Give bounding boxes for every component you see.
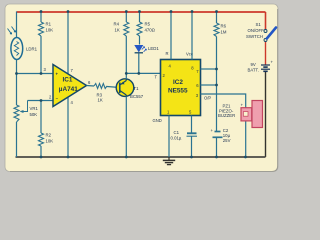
wire: R3 to T1 base: [107, 87, 120, 88]
svg-text:O/P: O/P: [204, 95, 211, 100]
wire: bottom ground rail (dark): [16, 156, 266, 158]
resistor R5: [137, 12, 156, 45]
wire: IC2 pin 3 output to buzzer: [201, 94, 246, 108]
svg-text:50K: 50K: [30, 112, 38, 117]
svg-text:470Ω: 470Ω: [145, 28, 156, 33]
potentiometer VR1: [14, 101, 38, 123]
svg-text:ON/OFF: ON/OFF: [248, 28, 265, 33]
svg-text:T: T: [155, 75, 158, 80]
LED LED1: [135, 45, 160, 53]
junction dots top rail: [40, 10, 218, 13]
svg-text:BUZZER: BUZZER: [218, 113, 235, 118]
wire: IC2 pin 8 to rail: [191, 12, 193, 60]
wire: IC2 pin 1 to ground: [168, 116, 170, 158]
wire: op-amp pin 7 to rail: [67, 12, 69, 75]
svg-text:C1: C1: [174, 130, 180, 135]
cream schematic panel: [5, 4, 278, 172]
capacitor C2 (electrolytic): [211, 128, 231, 143]
svg-text:GND: GND: [153, 118, 162, 123]
resistor R2: [39, 101, 54, 158]
resistor R4: [114, 12, 129, 74]
wire: IC2 pin 7 to R6 line: [201, 68, 217, 70]
svg-text:10K: 10K: [46, 28, 54, 33]
svg-text:R: R: [166, 51, 169, 56]
svg-text:R6: R6: [221, 24, 227, 29]
capacitor C1: [171, 130, 198, 141]
LDR LDR1: [8, 27, 38, 60]
ground symbol: [163, 157, 175, 165]
svg-text:25V: 25V: [223, 138, 231, 143]
wire: IC2 pin 6 to R6 line: [201, 84, 217, 86]
wire: right red vertical (rail to switch): [265, 12, 267, 30]
svg-text:IC2: IC2: [173, 79, 183, 86]
svg-text:VR1: VR1: [30, 106, 39, 111]
resistor R3: [94, 84, 107, 103]
resistor R6: [214, 12, 227, 132]
switch S1: [246, 22, 276, 42]
wire: battery negative down to ground rail (black): [265, 72, 267, 157]
wire: T1 emitter up to node / collector down to rail: [125, 73, 127, 157]
svg-text:1K: 1K: [98, 98, 103, 103]
wire: op-amp pin 2 to VR1 wiper / R2: [28, 100, 54, 102]
wire: top +V rail (red): [17, 11, 266, 13]
svg-text:µA741: µA741: [59, 86, 78, 93]
svg-text:LED1: LED1: [148, 46, 159, 51]
panel shadow edge: [10, 9, 278, 171]
svg-text:T1: T1: [134, 86, 140, 91]
svg-text:R5: R5: [145, 22, 151, 27]
wire: C1 to ground rail: [191, 137, 193, 158]
svg-text:SWITCH: SWITCH: [246, 34, 263, 39]
wire: left vertical branch: [16, 12, 18, 158]
svg-text:BC557: BC557: [130, 94, 144, 99]
wire: op-amp output to R3: [87, 85, 95, 88]
wire: node to op-amp pin 3: [17, 73, 54, 75]
wire: op-amp pin 4 to ground rail: [67, 97, 69, 158]
transistor T1 BC557: [116, 79, 144, 99]
wire: LED1 down to trigger node: [138, 54, 140, 74]
wire: IC2 pin 5 down to C1: [191, 116, 193, 133]
resistor R1: [39, 12, 54, 74]
wire: trigger row to IC2 pin 2: [126, 72, 160, 74]
svg-text:1K: 1K: [115, 28, 120, 33]
svg-text:IC1: IC1: [63, 77, 73, 84]
svg-text:S1: S1: [256, 22, 262, 27]
IC2 NE555: [161, 60, 201, 116]
svg-text:10K: 10K: [46, 139, 54, 144]
svg-text:BATT.: BATT.: [248, 68, 259, 73]
svg-text:1M: 1M: [221, 30, 227, 35]
piezo buzzer PZ1: [218, 101, 263, 158]
wire: C2 to ground rail: [216, 138, 218, 157]
page margin background: [0, 0, 283, 178]
op-amp IC1 uA741: [44, 65, 92, 107]
wire: switch to battery (red): [265, 41, 267, 65]
svg-text:R2: R2: [46, 133, 52, 138]
svg-text:NE555: NE555: [168, 88, 188, 95]
svg-text:0.01µ: 0.01µ: [171, 136, 182, 141]
svg-text:9V: 9V: [251, 62, 256, 67]
svg-text:R1: R1: [46, 22, 52, 27]
battery 9V: [248, 60, 274, 73]
svg-text:LDR1: LDR1: [26, 47, 38, 52]
junction dots mid nodes: [15, 68, 218, 102]
svg-text:R4: R4: [114, 22, 120, 27]
junction dots bottom rail: [40, 156, 247, 159]
wire: IC2 pin 4 to rail: [170, 12, 172, 60]
